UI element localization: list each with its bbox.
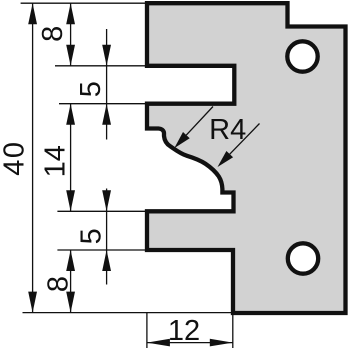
arrow 12 left — [147, 339, 170, 347]
svg-text:40: 40 — [0, 140, 31, 175]
dimension line 12 — [147, 342, 233, 344]
svg-text:8: 8 — [37, 26, 69, 42]
arrow 14 up — [66, 104, 75, 125]
arrow 8top up — [66, 3, 75, 24]
arrow 5bot outside-upper — [102, 190, 111, 211]
extension line top — [21, 2, 147, 4]
dimension line 5 bottom — [106, 189, 108, 285]
arrow 8bot up — [66, 250, 75, 271]
arrow 14 down — [66, 190, 75, 211]
svg-text:5: 5 — [76, 228, 108, 244]
leader R4 lower — [230, 124, 260, 155]
arrow 12 right — [210, 339, 233, 347]
leader R4 upper arrowhead — [174, 132, 189, 148]
svg-text:R4: R4 — [209, 114, 246, 146]
svg-text:12: 12 — [168, 315, 200, 347]
dimension line 40 — [32, 3, 34, 312]
mounting hole bottom — [288, 243, 318, 273]
leader R4 lower arrowhead — [218, 151, 234, 167]
svg-text:8: 8 — [43, 276, 75, 292]
extension line y=103.7 — [59, 103, 147, 105]
dimension line 14 — [70, 104, 72, 212]
dimension line 8 top — [70, 3, 72, 66]
extension line y=211.3 — [57, 210, 147, 212]
leader R4 upper — [186, 107, 213, 136]
arrow 5bot outside-lower — [102, 250, 111, 271]
arrow 5top outside-upper — [102, 45, 111, 66]
extension line y=250 — [57, 249, 147, 251]
arrow 5top outside-lower — [102, 104, 111, 125]
svg-text:5: 5 — [75, 81, 107, 97]
svg-text:14: 14 — [40, 145, 72, 177]
dimension line 5 top — [106, 29, 108, 140]
extension line y=65.8 — [55, 65, 147, 67]
extension line bottom — [23, 312, 234, 314]
arrow 8top down — [66, 45, 75, 66]
arrow 40 down — [28, 292, 37, 313]
knife plate body with ogee profile — [147, 3, 346, 313]
dimension line 8 bottom — [70, 250, 72, 313]
extension line 12 left — [146, 313, 148, 348]
mounting hole top — [287, 41, 317, 71]
arrow 40 up — [28, 3, 37, 24]
arrow 8bot down — [66, 292, 75, 313]
extension line 12 right — [232, 315, 234, 348]
